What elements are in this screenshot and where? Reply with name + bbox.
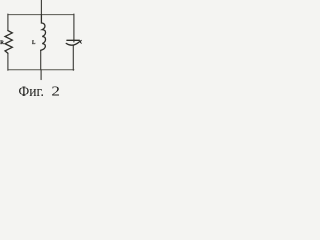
svg-text:C: C <box>80 40 82 46</box>
wire left upper <box>7 14 9 31</box>
wire bottom horizontal rail <box>8 69 74 71</box>
wire bottom terminal stub <box>40 70 42 80</box>
capacitor C top plate <box>67 39 80 41</box>
svg-text:Фиг.: Фиг. <box>19 84 44 100</box>
background paper <box>0 0 82 100</box>
wire top horizontal rail <box>8 14 74 16</box>
wire right lower <box>72 46 74 71</box>
wire middle lower <box>40 50 42 70</box>
resistor R zigzag <box>5 31 12 54</box>
wire right upper <box>73 14 75 42</box>
wire left lower <box>7 53 9 70</box>
svg-text:R: R <box>0 41 4 46</box>
wire top terminal stub <box>40 0 42 15</box>
svg-text:2: 2 <box>51 84 60 99</box>
inductor L coil <box>41 15 46 51</box>
capacitor C curved plate <box>66 42 79 46</box>
